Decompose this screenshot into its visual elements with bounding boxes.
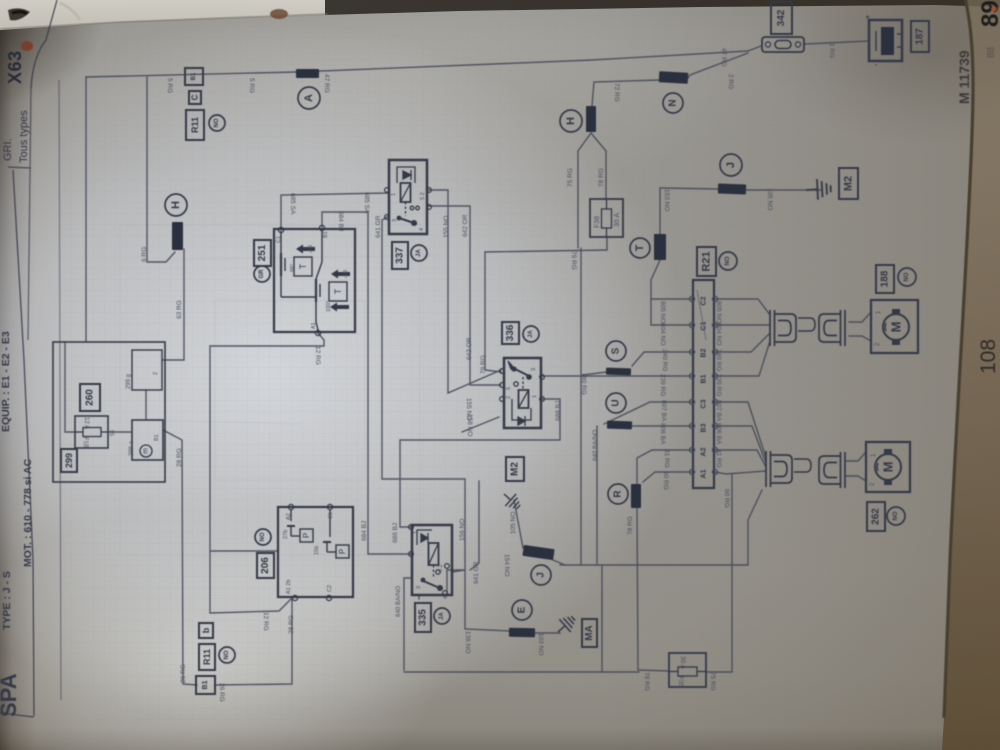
svg-text:A: A <box>303 94 315 102</box>
svg-text:B2: B2 <box>701 348 708 357</box>
svg-text:3: 3 <box>531 368 537 371</box>
svg-text:C3: C3 <box>701 399 708 408</box>
svg-text:156 NO: 156 NO <box>459 519 466 541</box>
svg-text:806 BA: 806 BA <box>715 423 722 445</box>
svg-text:M2: M2 <box>843 176 855 191</box>
svg-text:47 RG: 47 RG <box>323 74 330 93</box>
svg-text:M: M <box>889 322 904 333</box>
svg-text:-: - <box>873 63 880 66</box>
svg-text:2: 2 <box>153 372 159 375</box>
svg-text:A1: A1 <box>311 322 317 329</box>
svg-text:1: 1 <box>871 453 877 457</box>
svg-text:239 RG: 239 RG <box>715 374 722 396</box>
svg-text:100°: 100° <box>326 301 332 312</box>
svg-text:6 2: 6 2 <box>438 564 444 572</box>
svg-text:807 BA: 807 BA <box>660 400 667 422</box>
svg-text:J: J <box>536 572 547 578</box>
svg-text:R21: R21 <box>701 251 713 271</box>
svg-text:72 RG: 72 RG <box>613 83 620 102</box>
svg-text:A1 2b: A1 2b <box>286 580 292 594</box>
svg-text:C1: C1 <box>276 236 282 243</box>
svg-text:336: 336 <box>505 324 516 341</box>
svg-text:805 NO: 805 NO <box>659 301 666 323</box>
svg-text:30 A: 30 A <box>614 213 621 227</box>
svg-text:155 NO: 155 NO <box>443 216 450 238</box>
svg-text:63 RG: 63 RG <box>176 300 183 319</box>
svg-text:337: 337 <box>395 247 406 264</box>
svg-text:641 GR: 641 GR <box>473 561 480 584</box>
svg-text:1: 1 <box>391 193 397 196</box>
svg-text:A2: A2 <box>701 447 708 456</box>
svg-text:78 RG: 78 RG <box>598 168 605 187</box>
svg-text:188: 188 <box>880 270 891 287</box>
svg-text:TYPE : J - S: TYPE : J - S <box>1 571 13 630</box>
svg-text:R11: R11 <box>202 649 212 665</box>
svg-text:28 RG: 28 RG <box>176 448 183 467</box>
svg-text:26 RG: 26 RG <box>180 664 187 683</box>
svg-text:3: 3 <box>392 219 398 222</box>
svg-text:136 NO: 136 NO <box>464 631 471 653</box>
svg-text:2: 2 <box>506 396 512 399</box>
svg-text:685 SA: 685 SA <box>363 192 370 214</box>
svg-text:Tous types: Tous types <box>18 110 30 163</box>
svg-text:262: 262 <box>871 508 882 525</box>
svg-text:M: M <box>881 462 896 473</box>
svg-text:299: 299 <box>64 453 74 468</box>
svg-text:642 OR: 642 OR <box>462 214 469 237</box>
svg-text:260: 260 <box>85 389 96 406</box>
svg-text:75 RG: 75 RG <box>567 168 574 187</box>
svg-text:95: 95 <box>108 430 114 436</box>
svg-text:1: 1 <box>532 395 538 398</box>
svg-text:688 BJ: 688 BJ <box>555 401 562 421</box>
svg-text:GRI.: GRI. <box>2 138 14 161</box>
svg-text:JA: JA <box>528 329 534 337</box>
svg-text:158 NO: 158 NO <box>466 414 473 436</box>
svg-text:NO: NO <box>260 532 266 541</box>
svg-text:251: 251 <box>257 244 268 261</box>
svg-text:NO: NO <box>214 118 220 127</box>
svg-text:78 RG: 78 RG <box>643 672 650 691</box>
svg-text:26 RG: 26 RG <box>218 683 225 702</box>
svg-text:27b: 27b <box>283 530 289 539</box>
svg-text:2: 2 <box>870 482 876 486</box>
svg-text:47 RG: 47 RG <box>720 48 727 67</box>
svg-text:P: P <box>302 533 311 538</box>
svg-text:R: R <box>613 490 624 498</box>
svg-text:2: 2 <box>875 342 881 346</box>
svg-text:N: N <box>668 99 679 106</box>
svg-text:105 NO: 105 NO <box>766 188 773 210</box>
svg-text:685 SA: 685 SA <box>289 193 296 215</box>
svg-text:+: + <box>865 15 872 19</box>
svg-text:B1: B1 <box>191 72 197 80</box>
svg-text:103 NO: 103 NO <box>537 633 544 655</box>
svg-text:NO: NO <box>893 511 899 520</box>
svg-text:640 BA/NO: 640 BA/NO <box>592 430 599 461</box>
svg-text:342: 342 <box>776 9 787 26</box>
svg-text:1: 1 <box>413 531 419 534</box>
svg-text:R11: R11 <box>190 117 200 133</box>
svg-text:T: T <box>634 244 646 251</box>
svg-text:3: 3 <box>416 586 422 589</box>
svg-text:P: P <box>338 549 347 554</box>
svg-text:1 RG: 1 RG <box>828 43 835 58</box>
svg-text:NO: NO <box>725 256 731 265</box>
svg-text:m: m <box>143 448 150 454</box>
svg-text:b: b <box>201 627 211 633</box>
svg-text:1: 1 <box>876 310 882 314</box>
svg-text:J: J <box>725 162 737 168</box>
svg-text:B1: B1 <box>154 434 160 441</box>
svg-text:JA: JA <box>416 248 422 256</box>
svg-text:M 11739: M 11739 <box>956 50 972 104</box>
svg-text:90 RG: 90 RG <box>662 471 669 490</box>
svg-text:4: 4 <box>419 228 425 231</box>
svg-text:C2: C2 <box>701 296 708 305</box>
svg-text:807 BA: 807 BA <box>715 400 722 422</box>
svg-text:F35: F35 <box>677 676 684 688</box>
svg-text:684 BJ: 684 BJ <box>337 211 344 231</box>
svg-text:H: H <box>170 201 182 209</box>
svg-text:640 BA/NO: 640 BA/NO <box>395 586 402 617</box>
svg-text:MA: MA <box>584 625 595 641</box>
svg-text:4: 4 <box>443 596 449 599</box>
svg-text:12 RG: 12 RG <box>314 346 321 365</box>
svg-text:299 a: 299 a <box>129 440 135 456</box>
svg-text:5 RG: 5 RG <box>248 78 255 93</box>
svg-text:U: U <box>611 399 622 406</box>
svg-text:153 NO: 153 NO <box>663 189 670 211</box>
svg-text:89: 89 <box>977 0 1000 27</box>
svg-text:299 g: 299 g <box>126 374 132 389</box>
svg-text:806 BA: 806 BA <box>659 423 666 445</box>
svg-text:6 RG: 6 RG <box>141 247 148 262</box>
svg-text:B1: B1 <box>202 680 209 689</box>
svg-text:88°: 88° <box>341 270 347 278</box>
svg-text:E: E <box>517 606 528 613</box>
svg-text:154 NO: 154 NO <box>503 554 510 576</box>
svg-text:F1B: F1B <box>82 437 88 448</box>
svg-text:642 OR: 642 OR <box>466 337 473 360</box>
svg-text:187: 187 <box>915 28 926 45</box>
svg-text:B1: B1 <box>323 231 329 238</box>
svg-text:C2: C2 <box>327 585 333 592</box>
svg-text:M2: M2 <box>510 462 521 476</box>
svg-text:805 NO: 805 NO <box>715 301 722 323</box>
svg-text:240 RG: 240 RG <box>715 349 722 371</box>
svg-text:NO: NO <box>224 650 230 659</box>
svg-text:80 RG: 80 RG <box>580 376 587 395</box>
svg-text:5 RG: 5 RG <box>166 78 173 93</box>
svg-text:12 RG: 12 RG <box>262 612 269 631</box>
svg-text:A1: A1 <box>701 469 708 478</box>
svg-text:206: 206 <box>260 557 271 574</box>
svg-text:641 GR: 641 GR <box>375 215 382 238</box>
svg-text:98°: 98° <box>290 264 296 272</box>
svg-text:239 RG: 239 RG <box>659 374 666 396</box>
svg-text:335: 335 <box>418 609 429 626</box>
svg-text:686 BJ: 686 BJ <box>392 523 399 543</box>
svg-text:105 NO: 105 NO <box>510 512 517 534</box>
svg-text:88: 88 <box>986 46 997 58</box>
svg-text:F38: F38 <box>594 216 601 228</box>
svg-text:C: C <box>191 94 200 100</box>
svg-text:79 RG: 79 RG <box>480 355 487 374</box>
svg-text:H: H <box>565 117 577 125</box>
svg-text:88°: 88° <box>306 245 312 253</box>
svg-text:GR: GR <box>259 269 265 279</box>
svg-text:90 RG: 90 RG <box>723 489 730 508</box>
svg-text:C1: C1 <box>328 512 334 519</box>
svg-text:A2: A2 <box>286 513 292 520</box>
svg-text:EQUIP. : E1 - E2 - E3: EQUIP. : E1 - E2 - E3 <box>0 331 12 432</box>
svg-text:B3: B3 <box>701 423 708 432</box>
svg-text:JA: JA <box>439 611 445 619</box>
svg-text:804 NO: 804 NO <box>715 323 722 345</box>
svg-text:S: S <box>611 347 622 354</box>
svg-text:2 RG: 2 RG <box>727 74 734 89</box>
svg-text:5: 5 <box>506 387 512 390</box>
svg-text:684 BJ: 684 BJ <box>361 521 368 541</box>
svg-text:T: T <box>333 288 343 294</box>
svg-text:MOT. : 610 - 778 si AC: MOT. : 610 - 778 si AC <box>22 458 34 567</box>
svg-text:5 2: 5 2 <box>420 192 426 200</box>
svg-text:X63: X63 <box>5 50 25 84</box>
svg-text:804 NO: 804 NO <box>659 323 666 345</box>
svg-text:28 RG: 28 RG <box>288 615 295 634</box>
svg-text:NO: NO <box>904 272 910 281</box>
svg-text:B1: B1 <box>701 374 708 383</box>
svg-text:240 RG: 240 RG <box>661 349 668 371</box>
svg-text:SPA: SPA <box>0 673 21 717</box>
svg-text:81 RG: 81 RG <box>663 449 670 468</box>
svg-text:T: T <box>298 263 308 269</box>
svg-text:75 RG: 75 RG <box>709 672 716 691</box>
svg-text:108: 108 <box>977 339 1000 374</box>
svg-text:15b: 15b <box>314 546 320 555</box>
svg-text:79 RG: 79 RG <box>570 251 577 270</box>
svg-text:78 RG: 78 RG <box>627 516 634 535</box>
